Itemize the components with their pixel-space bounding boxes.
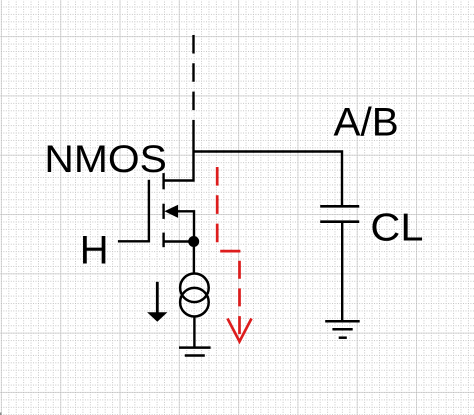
channel segment middle — [162, 204, 164, 219]
wire: capacitor to ground — [341, 223, 343, 321]
drain stub — [164, 152, 194, 181]
wire: dashed off-page continuation from drain, top — [192, 35, 194, 152]
bulk stub with arrow — [176, 211, 194, 241]
capacitor CL — [320, 206, 359, 221]
current direction arrow (black, pointing down) — [147, 282, 167, 322]
gate bar — [148, 180, 150, 243]
ground (below capacitor) — [325, 321, 360, 338]
wire: drain node to capacitor (net A/B) — [194, 152, 343, 206]
current source I1 — [180, 274, 209, 317]
ground (below current source) — [179, 348, 211, 356]
source stub — [164, 240, 194, 242]
red dashed discharge-current path with open arrowhead — [217, 167, 251, 342]
partial mark at bottom-left screen corner — [0, 413, 2, 415]
channel segment bottom — [162, 233, 164, 248]
bulk arrowhead (NMOS) — [164, 205, 178, 218]
svg-text:CL: CL — [370, 206, 423, 249]
wire: current source to ground — [193, 317, 195, 348]
svg-text:NMOS: NMOS — [44, 138, 166, 181]
svg-text:H: H — [80, 229, 109, 273]
transistor M1 NMOS (4-terminal enhancement symbol) — [149, 152, 194, 248]
node: source junction dot — [188, 236, 199, 247]
wire: gate to H — [118, 240, 149, 242]
svg-text:A/B: A/B — [334, 101, 399, 145]
wire: source to current source — [193, 242, 195, 274]
channel segment top — [162, 173, 164, 189]
